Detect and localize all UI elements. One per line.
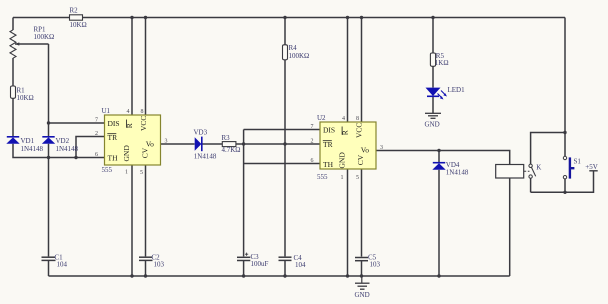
svg-text:7: 7 (311, 124, 314, 130)
wire wiper drop to VD2 (48, 44, 50, 137)
wire U2 pin8 drop (361, 18, 363, 123)
svg-text:R: R (340, 130, 349, 135)
wire top rail left of R2 (13, 17, 70, 19)
svg-text:8: 8 (141, 109, 144, 115)
svg-text:VD3: VD3 (194, 128, 208, 136)
relay K contact (529, 164, 536, 178)
svg-text:7: 7 (95, 118, 98, 124)
node VD4 (437, 149, 440, 152)
wire relay contact to bus2 (530, 178, 532, 192)
wire C5 to bus (361, 261, 363, 276)
svg-text:4: 4 (127, 109, 130, 115)
wire LED1 to GND (432, 96, 434, 113)
svg-text:3: 3 (380, 145, 383, 151)
wire U2 pin1 to bus (347, 169, 349, 276)
wire C4 to bus (284, 261, 286, 276)
resistor R3 (222, 134, 241, 154)
relay K coil (496, 164, 542, 179)
svg-text:1N4148: 1N4148 (446, 169, 469, 177)
svg-text:2: 2 (95, 131, 98, 137)
wire R5 to LED1 (432, 66, 434, 87)
svg-text:K: K (536, 164, 541, 172)
node bus C3 (242, 274, 245, 277)
node link top right (563, 131, 566, 134)
op-amp U1 (555 timer) (95, 107, 168, 176)
resistor R2 (70, 7, 87, 30)
wire C1 to ground bus (48, 261, 50, 276)
svg-text:Vo: Vo (146, 140, 154, 149)
svg-text:1KΩ: 1KΩ (435, 59, 449, 67)
svg-text:R: R (125, 123, 134, 128)
ground GND bottom (355, 276, 370, 299)
svg-text:VD2: VD2 (56, 137, 70, 145)
svg-text:10KΩ: 10KΩ (17, 94, 34, 102)
node pin4 U1 on rail (130, 16, 133, 19)
wire R3 to U2 TR (236, 143, 320, 145)
wire link to relay contact (531, 133, 565, 165)
svg-text:104: 104 (57, 260, 68, 268)
wire C3 to bus (243, 261, 245, 276)
node bus C4 (283, 274, 286, 277)
svg-text:TR: TR (108, 133, 118, 142)
wire tie DIS2-TR2-TH2 vertical and down to C3 (243, 130, 245, 257)
svg-text:104: 104 (295, 261, 306, 269)
wire R4 down through TR junction to C4 (284, 60, 286, 257)
wire U1 Vo to VD3 (161, 143, 195, 145)
node R3 tie (242, 142, 245, 145)
svg-text:1N4148: 1N4148 (56, 145, 79, 153)
capacitor C2 (139, 254, 165, 269)
svg-text:1N4148: 1N4148 (21, 145, 44, 153)
svg-text:10KΩ: 10KΩ (70, 21, 87, 29)
svg-text:VCC: VCC (139, 116, 148, 131)
svg-text:+5V: +5V (585, 163, 598, 171)
diode VD4 (432, 161, 469, 177)
node bus VD4 (437, 274, 440, 277)
node R4 TR2 (283, 142, 286, 145)
node TH U1 at VD2 (47, 156, 50, 159)
wire C2 to bus (145, 261, 147, 276)
wire VD2 anode down to C1 (48, 144, 50, 257)
resistor R5 (430, 52, 448, 67)
wire VD3 to R3 (202, 143, 222, 145)
svg-text:R3: R3 (222, 134, 231, 142)
wire R4 top drop (284, 18, 286, 45)
capacitor C1 (42, 254, 68, 269)
svg-text:6: 6 (95, 152, 98, 158)
svg-text:100KΩ: 100KΩ (289, 52, 310, 60)
svg-text:S1: S1 (574, 158, 582, 166)
wire U2 Vo to relay (376, 151, 510, 165)
wire RP1 to R1 (12, 58, 14, 86)
svg-text:TH: TH (108, 154, 119, 163)
svg-text:GND: GND (355, 291, 370, 299)
wire U1 pin4 drop (131, 18, 133, 116)
svg-text:555: 555 (102, 166, 113, 174)
svg-text:CV: CV (356, 154, 365, 165)
svg-text:6: 6 (311, 158, 314, 164)
svg-text:VCC: VCC (354, 123, 363, 138)
svg-text:4.7KΩ: 4.7KΩ (222, 146, 241, 154)
wire TR U1 (76, 137, 105, 158)
bus2 to +5V (531, 171, 594, 193)
node R5 on rail (431, 16, 434, 19)
node R4 on rail (283, 16, 286, 19)
capacitor C5 (355, 254, 381, 269)
node bus C5/GND (360, 274, 363, 277)
svg-text:1: 1 (125, 170, 128, 176)
svg-text:555: 555 (317, 173, 328, 181)
diode VD2 (42, 137, 79, 153)
wire DIS U2 (244, 129, 320, 131)
wire DIS U1 (49, 122, 105, 124)
node S1 bus2 (563, 191, 566, 194)
wire R1 to VD1 (12, 98, 14, 137)
svg-text:VD1: VD1 (21, 137, 35, 145)
node bus U2 pin1 (346, 274, 349, 277)
svg-text:CV: CV (141, 147, 150, 158)
svg-text:R4: R4 (289, 44, 298, 52)
node bus U1 pin1 (130, 274, 133, 277)
svg-text:U2: U2 (317, 114, 326, 122)
svg-text:Vo: Vo (361, 145, 369, 154)
wire U2 pin5 to C5 (361, 169, 363, 257)
ground under LED1 (425, 113, 442, 128)
capacitor C4 (279, 254, 307, 269)
node TR tie U1 (74, 156, 77, 159)
svg-text:4: 4 (342, 116, 345, 122)
wire top rail right of R2 (83, 17, 566, 19)
wire S1 bottom to bus2 (564, 179, 566, 192)
svg-text:GND: GND (338, 152, 347, 169)
node bus C2 (144, 274, 147, 277)
wire right drop from top rail to S1 (564, 18, 566, 157)
LED LED1 (426, 86, 466, 100)
wire U1 pin8 drop (145, 18, 147, 116)
svg-text:1N4148: 1N4148 (194, 152, 217, 160)
svg-text:DIS: DIS (108, 119, 120, 128)
resistor R1 (11, 86, 34, 102)
svg-text:TR: TR (323, 140, 333, 149)
svg-text:U1: U1 (102, 107, 111, 115)
svg-text:3: 3 (165, 138, 168, 144)
svg-text:TH: TH (323, 160, 334, 169)
svg-text:8: 8 (356, 116, 359, 122)
wire R5 top drop (432, 18, 434, 54)
diode VD3 (194, 128, 217, 160)
svg-text:5: 5 (356, 175, 359, 181)
switch S1 (563, 156, 581, 179)
svg-text:LED1: LED1 (448, 86, 466, 94)
node pin8 U2 on rail (360, 16, 363, 19)
ground bus (49, 275, 510, 277)
capacitor C3 (electrolytic) (237, 253, 269, 268)
svg-text:103: 103 (370, 260, 381, 268)
wire TH U2 (244, 163, 320, 165)
svg-text:DIS: DIS (323, 126, 335, 135)
power +5V (585, 163, 598, 171)
wire U1 pin1 to bus (131, 165, 133, 276)
svg-text:100uF: 100uF (251, 260, 269, 268)
wire VD1 anode down and TH net horizontal (13, 144, 105, 158)
resistor R4 (283, 44, 310, 60)
svg-text:GND: GND (122, 145, 131, 162)
wire U1 pin5 to C2 (145, 165, 147, 256)
wire U2 pin4 drop (347, 18, 349, 123)
wire VD4 anode to bus (438, 170, 440, 276)
op-amp U2 (555 timer) (311, 114, 384, 181)
wire RP1 wiper horizontal (15, 43, 49, 45)
node DIS U1 (47, 121, 50, 124)
svg-text:100KΩ: 100KΩ (34, 33, 55, 41)
svg-text:1: 1 (341, 175, 344, 181)
svg-text:103: 103 (154, 260, 165, 268)
svg-text:GND: GND (425, 121, 440, 129)
node pin8 U1 on rail (144, 16, 147, 19)
wire Vo2 to VD4 (438, 151, 440, 163)
svg-text:5: 5 (140, 170, 143, 176)
svg-text:2: 2 (311, 139, 314, 145)
svg-text:R2: R2 (70, 7, 79, 15)
potentiometer RP1 (10, 26, 54, 59)
diode VD1 (6, 137, 43, 153)
node pin4 U2 on rail (346, 16, 349, 19)
wire left drop to RP1 (12, 18, 14, 31)
wire relay coil bottom to bus (509, 178, 511, 276)
